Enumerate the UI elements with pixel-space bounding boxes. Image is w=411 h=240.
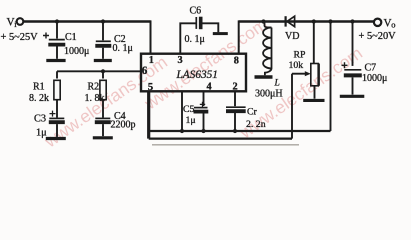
svg-text:2200p: 2200p [111,120,136,131]
svg-text:1μ: 1μ [36,127,47,138]
svg-text:VD: VD [285,31,299,42]
capacitor C1 [43,22,89,61]
svg-text:Cr: Cr [247,107,258,118]
svg-text:+ 5~25V: + 5~25V [1,32,39,43]
svg-text:LAS6351: LAS6351 [176,69,218,81]
svg-text:3: 3 [178,55,183,66]
inductor L [255,22,283,100]
svg-text:C1: C1 [65,32,77,43]
capacitor C5 [183,91,208,131]
svg-text:L: L [274,79,280,89]
svg-text:1000μ: 1000μ [64,46,89,57]
wire scan artifact line [152,144,299,146]
terminal Vi [17,18,24,25]
ground C1 [46,59,65,62]
node L junction [261,19,265,23]
wire pin 1 drop [150,20,152,53]
svg-text:1000μ: 1000μ [362,73,387,84]
svg-text:4: 4 [207,82,212,93]
ground RP [303,99,324,102]
ground C6 [213,32,228,35]
node C2 junction [101,19,105,23]
svg-text:1μ: 1μ [186,115,196,126]
wire pin 7 stub to line A [181,91,183,131]
wire pin 6 line [57,70,141,72]
terminal Vo [374,19,381,26]
capacitor C2 [94,22,133,61]
wire pin 5 bar [147,91,150,138]
svg-text:R2: R2 [88,82,100,93]
svg-text:R1: R1 [33,82,45,93]
svg-text:0. 1μ: 0. 1μ [185,34,205,45]
node Cr on line A [233,129,237,133]
svg-text:C7: C7 [365,62,377,73]
resistor R2 [85,71,107,117]
ground C2 [94,59,112,62]
svg-text:C3: C3 [34,113,46,124]
capacitor C3 [34,111,66,139]
node RP junction [312,19,316,23]
wire top rail left (Vi to pin 1) [23,20,150,23]
svg-text:C6: C6 [190,6,202,17]
svg-text:5: 5 [148,81,153,93]
svg-text:0. 1μ: 0. 1μ [113,43,133,54]
svg-text:6: 6 [142,65,148,77]
node C1 junction [55,19,59,23]
node R2 junction on pin6 line [101,69,105,73]
wire top rail right (pin 8 to Vo) [239,20,375,23]
IC U1 LAS6351 box [141,54,246,92]
node C5 on line A [201,129,205,133]
ground C7 [340,95,365,98]
svg-text:2: 2 [233,82,238,93]
wire pin 8 drop [238,20,240,53]
wire line A (sense line) [149,130,331,132]
node C7 junction [350,19,354,23]
svg-text:8: 8 [234,56,239,67]
svg-text:300μH: 300μH [255,89,283,100]
wire line B (wiper return) [149,137,292,139]
potentiometer RP [289,22,325,139]
capacitor C4 [93,111,136,138]
svg-text:o: o [391,20,395,30]
node feedback junction [328,19,332,23]
wire feedback vertical [330,22,332,132]
svg-text:+ 5~20V: + 5~20V [359,31,397,42]
capacitor Cr [226,91,266,131]
svg-text:2. 2n: 2. 2n [246,119,266,130]
resistor R1 [29,71,60,117]
svg-text:1: 1 [149,55,154,66]
diode VD [285,16,299,42]
node pin7 stub on line A [180,129,184,133]
svg-text:C5: C5 [183,104,195,115]
svg-text:10k: 10k [289,60,304,71]
svg-text:8. 2k: 8. 2k [29,93,49,104]
ground C3 [46,137,66,140]
capacitor C7 [340,22,388,97]
svg-text:1. 8k: 1. 8k [85,93,105,104]
ground C4 [93,136,113,139]
ground L [255,75,273,79]
capacitor C6 [180,6,228,54]
